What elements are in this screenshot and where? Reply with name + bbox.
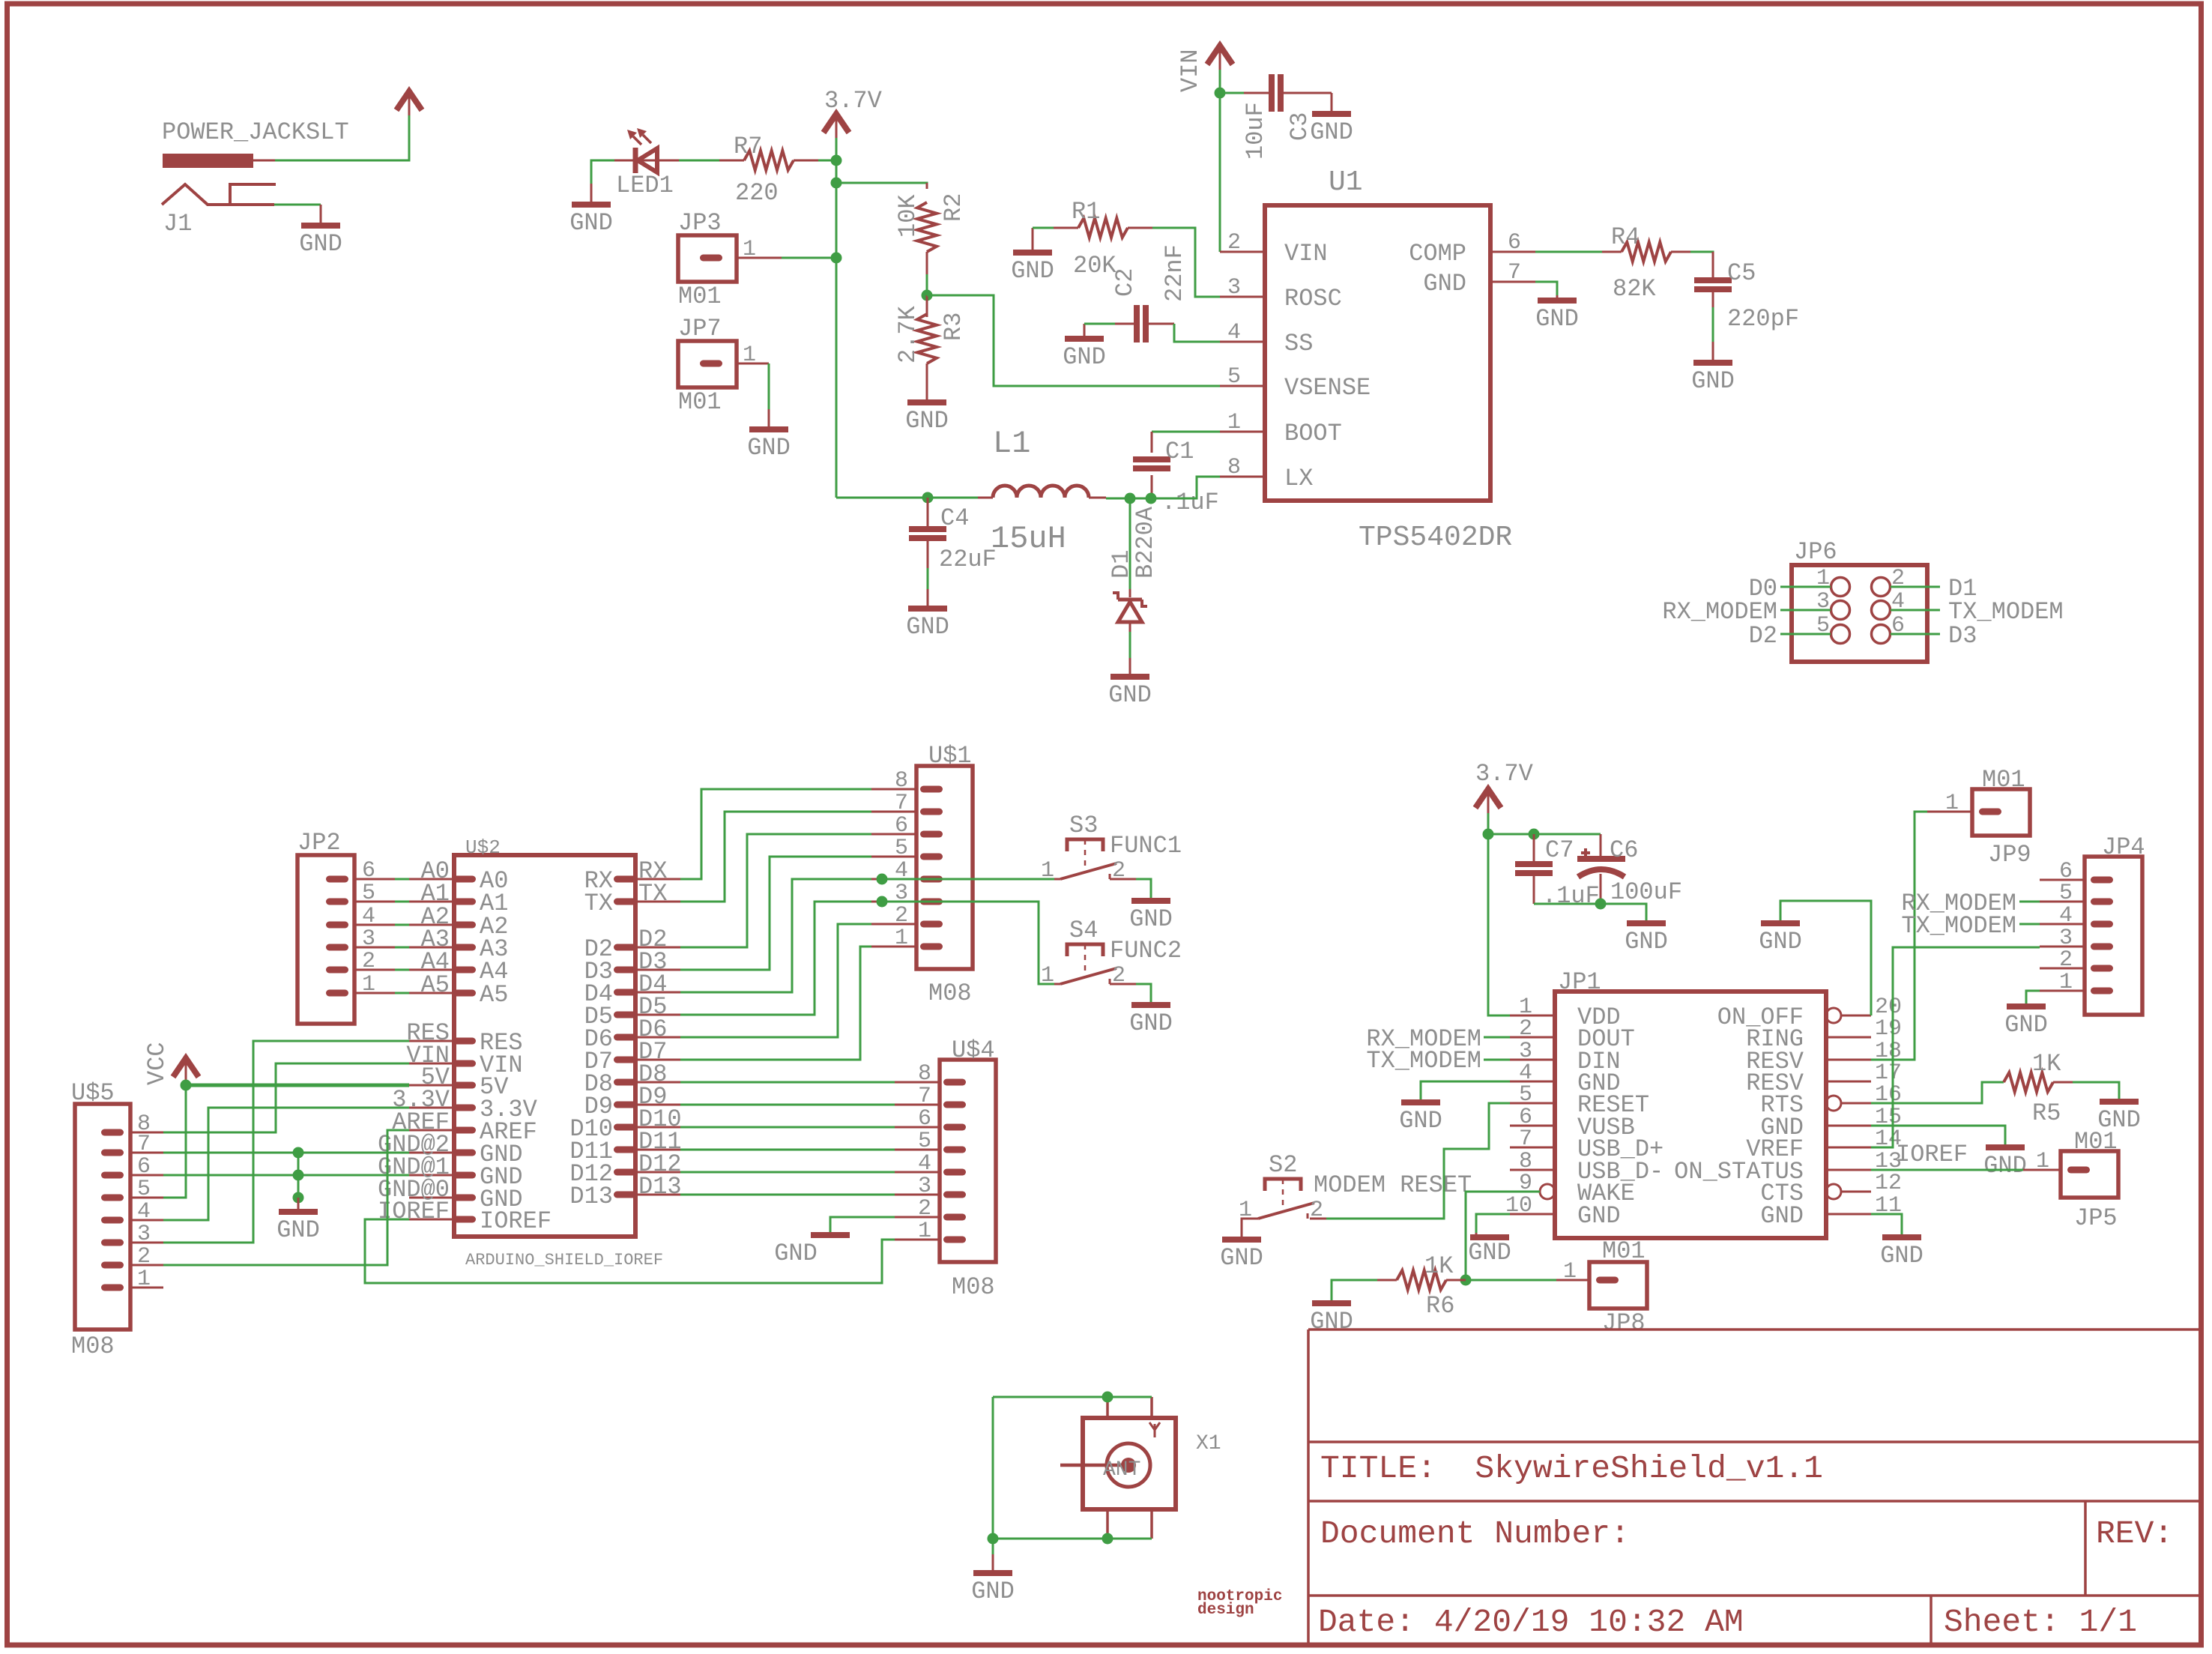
pin 2 VIN <box>1220 251 1265 253</box>
ground at JP1 pin15 <box>1983 1145 2027 1180</box>
svg-text:GND: GND <box>1129 1009 1173 1037</box>
junction C1 node <box>1146 493 1157 504</box>
pin 4 GND <box>1510 1081 1555 1083</box>
svg-text:GND: GND <box>906 613 949 641</box>
pin 20 ON_OFF <box>1826 1008 1841 1023</box>
wire D1 to ground <box>1129 632 1131 658</box>
junction X1 bottom left <box>988 1533 999 1545</box>
pin IOREF <box>453 1216 476 1223</box>
wire U$5 pin4 to 3.3V <box>163 1108 409 1220</box>
pin D3 <box>614 967 636 974</box>
svg-text:D13: D13 <box>569 1183 613 1210</box>
svg-text:4: 4 <box>2059 903 2073 929</box>
wire U$2 to U$1 <box>680 902 871 1015</box>
switch S4 FUNC2 <box>1041 917 1182 989</box>
svg-text:GND: GND <box>1983 1152 2027 1180</box>
wire D0 to JP6 pin1 <box>1780 586 1831 588</box>
svg-text:2: 2 <box>1519 1016 1532 1042</box>
svg-text:C1: C1 <box>1165 438 1194 465</box>
svg-text:LED1: LED1 <box>616 172 674 199</box>
connector JP3 M01 <box>678 209 782 310</box>
svg-text:GND: GND <box>1310 1308 1353 1335</box>
svg-text:1: 1 <box>918 1219 931 1244</box>
svg-text:R6: R6 <box>1426 1292 1454 1320</box>
svg-text:10uF: 10uF <box>1242 102 1269 160</box>
pin 5 RESET <box>1510 1102 1555 1105</box>
wire U$4 pin2 to ground <box>830 1217 895 1233</box>
svg-text:M08: M08 <box>928 980 972 1007</box>
connector J1 POWER_JACKSLT power jack <box>162 118 349 238</box>
ground below U1 pin 7 <box>1535 295 1579 333</box>
wire U$2 to U$1 <box>680 789 871 879</box>
svg-text:FUNC2: FUNC2 <box>1110 937 1182 965</box>
pin 17 RESV <box>1826 1081 1871 1083</box>
svg-text:7: 7 <box>1508 260 1521 286</box>
connector JP8 M01 <box>1556 1237 1647 1337</box>
pin 13 ON_STATUS <box>1826 1169 1871 1171</box>
svg-text:GND: GND <box>905 407 949 435</box>
capacitor C1 .1uF <box>1133 432 1219 516</box>
pin D5 <box>614 1012 636 1018</box>
svg-text:2: 2 <box>895 903 908 929</box>
logo nootropic design <box>1197 1588 1282 1619</box>
svg-text:GND: GND <box>1108 681 1152 709</box>
ground below S3 <box>1129 899 1173 933</box>
svg-text:C2: C2 <box>1111 268 1139 297</box>
svg-text:D13: D13 <box>638 1173 682 1201</box>
svg-text:Date: 4/20/19 10:32 AM: Date: 4/20/19 10:32 AM <box>1318 1604 1744 1641</box>
wire JP7 pin1 to ground <box>768 363 770 409</box>
wire LED1 to R7 <box>679 160 742 162</box>
resistor R2 10K <box>894 183 967 274</box>
ground left of R6 <box>1310 1301 1353 1335</box>
svg-text:2: 2 <box>2059 947 2073 973</box>
svg-text:GND: GND <box>1063 343 1106 371</box>
inductor L1 15uH <box>978 426 1106 557</box>
svg-text:6: 6 <box>895 813 908 839</box>
wire ground column <box>297 1153 300 1198</box>
wire JP1 pin10 to ground <box>1476 1214 1510 1233</box>
svg-text:JP8: JP8 <box>1602 1309 1646 1337</box>
svg-text:U$5: U$5 <box>71 1079 115 1107</box>
svg-text:ARDUINO_SHIELD_IOREF: ARDUINO_SHIELD_IOREF <box>465 1251 663 1270</box>
connector JP4 M06 header <box>2040 833 2145 1015</box>
svg-text:4: 4 <box>918 1151 931 1177</box>
pin 6 VUSB <box>1510 1125 1555 1127</box>
ground right of R5 <box>2097 1099 2141 1134</box>
capacitor C4 22uF <box>909 498 997 573</box>
switch S2 MODEM RESET <box>1239 1151 1472 1223</box>
svg-text:M01: M01 <box>678 283 722 310</box>
wire 3.7V down to JP1 VDD <box>1488 813 1510 1015</box>
wire R6 node to JP8 <box>1466 1279 1556 1282</box>
ground below LED1 <box>569 184 613 237</box>
junction U$1 pin3 / S4 <box>877 896 888 908</box>
wire JP1 pin11 to ground <box>1871 1214 1902 1235</box>
resistor R6 1K <box>1377 1252 1466 1320</box>
svg-text:IOREF: IOREF <box>480 1207 552 1235</box>
wire TX_MODEM to JP4 pin4 <box>2019 923 2040 926</box>
wire R1 to U1 pin 3 ROSC <box>1152 228 1220 297</box>
junction C4 node <box>922 492 934 504</box>
pin 8 LX <box>1220 476 1265 478</box>
svg-text:VIN: VIN <box>1284 240 1328 268</box>
pin 2 DOUT <box>1510 1036 1555 1039</box>
svg-text:3.7V: 3.7V <box>1475 760 1534 788</box>
ground below J1 <box>299 205 342 258</box>
svg-text:1: 1 <box>1041 963 1054 989</box>
pin RES <box>453 1038 476 1045</box>
pin 7 USB_D+ <box>1510 1147 1555 1149</box>
wire X1 bottom net <box>993 1538 1152 1540</box>
pin 1 VDD <box>1510 1015 1555 1017</box>
svg-text:5: 5 <box>137 1177 151 1202</box>
pin D6 <box>614 1034 636 1041</box>
svg-text:GND: GND <box>1011 257 1054 285</box>
wire U$5 pin7 to GND@2 <box>163 1152 409 1154</box>
connector U$4 M08 <box>895 1036 996 1301</box>
wire S4 pin2 to ground <box>1110 983 1136 986</box>
svg-text:D3: D3 <box>1948 622 1977 650</box>
antenna X1 <box>1060 1397 1221 1539</box>
wire VREF / IOREF to JP4 pin3 <box>1871 947 2040 1147</box>
svg-text:GND: GND <box>1220 1244 1263 1272</box>
svg-text:3: 3 <box>1227 275 1241 301</box>
svg-text:GND: GND <box>1625 928 1668 956</box>
ground at JP1 pin11 <box>1880 1235 1924 1270</box>
connector U$1 M08 <box>871 742 973 1007</box>
wire U$2 to U$1 <box>680 834 871 947</box>
ground below D1 <box>1108 658 1152 709</box>
svg-text:8: 8 <box>895 768 908 794</box>
wire R2 to R3 <box>926 274 928 295</box>
svg-text:12: 12 <box>1875 1171 1902 1196</box>
svg-text:1K: 1K <box>2032 1050 2061 1078</box>
svg-text:5: 5 <box>1227 364 1241 390</box>
pin 9 WAKE <box>1510 1191 1540 1193</box>
svg-text:GND: GND <box>774 1240 818 1267</box>
junction VCC / 5V <box>181 1080 192 1091</box>
pin 16 RTS <box>1826 1096 1841 1111</box>
svg-text:1K: 1K <box>1424 1252 1454 1280</box>
ground below S4 <box>1129 1003 1173 1037</box>
svg-text:JP2: JP2 <box>297 829 341 857</box>
ground below C4 <box>906 589 949 641</box>
svg-text:JP7: JP7 <box>678 315 722 342</box>
pin D10 <box>614 1124 636 1131</box>
svg-text:GND: GND <box>1880 1242 1924 1270</box>
svg-text:GND: GND <box>1577 1202 1621 1230</box>
svg-text:3.7V: 3.7V <box>824 87 883 115</box>
svg-text:GND: GND <box>1468 1239 1511 1267</box>
svg-text:4: 4 <box>137 1199 151 1225</box>
wire U$5 pin5 to VCC <box>163 1085 186 1198</box>
pin AREF <box>453 1127 476 1134</box>
wire JP2 to U$2 A3 <box>354 947 395 949</box>
IC JP1 modem header <box>1505 968 1902 1238</box>
svg-text:JP6: JP6 <box>1794 538 1837 566</box>
pin 4 SS <box>1220 341 1265 343</box>
junction R2/R3 VSENSE node <box>922 290 933 301</box>
wire VIN arrow to junction <box>1219 70 1221 93</box>
pin D13 <box>614 1192 636 1198</box>
svg-text:POWER_JACKSLT: POWER_JACKSLT <box>162 118 349 146</box>
junction 3.7V at R7 <box>831 155 842 166</box>
svg-text:1: 1 <box>137 1267 151 1292</box>
svg-text:R4: R4 <box>1611 223 1640 251</box>
ground at ON_OFF <box>1759 921 1802 956</box>
svg-text:10K: 10K <box>894 194 922 238</box>
wire J1 sleeve to ground <box>274 204 321 206</box>
wire IOREF net U$2 to U$4 pin1 <box>365 1219 895 1283</box>
svg-text:6: 6 <box>1508 230 1521 256</box>
svg-text:15uH: 15uH <box>991 521 1066 557</box>
svg-text:D2: D2 <box>1749 622 1777 650</box>
wire JP2 to U$2 A0 <box>354 878 395 881</box>
capacitor C6 100uF polarized <box>1577 834 1682 906</box>
svg-text:S3: S3 <box>1069 812 1098 839</box>
svg-text:R3: R3 <box>940 313 967 341</box>
wire L1 to LX node <box>1106 498 1197 500</box>
svg-text:220: 220 <box>735 179 779 207</box>
svg-text:S2: S2 <box>1269 1151 1297 1179</box>
svg-text:BOOT: BOOT <box>1284 420 1342 447</box>
junction 3.7V / C7 branch <box>1483 829 1494 840</box>
svg-text:7: 7 <box>1519 1126 1532 1152</box>
svg-text:C6: C6 <box>1610 836 1638 864</box>
svg-text:C7: C7 <box>1545 836 1574 864</box>
pin D2 <box>614 944 636 951</box>
wire U1 pin7 GND to ground <box>1535 282 1557 295</box>
junction C7 <box>1529 829 1540 840</box>
junction 3.7V at JP3 <box>831 253 842 264</box>
svg-text:1: 1 <box>743 342 756 368</box>
svg-text:JP4: JP4 <box>2102 833 2145 861</box>
wire U$2 D-pin to U$4 <box>680 1126 895 1129</box>
svg-text:M08: M08 <box>71 1332 115 1360</box>
wire R5 to ground <box>2073 1082 2119 1099</box>
wire ON_STATUS to JP5 <box>1871 1169 2023 1171</box>
wire D2 to JP6 pin5 <box>1780 633 1831 636</box>
pin GND@2 <box>453 1150 476 1156</box>
svg-text:ROSC: ROSC <box>1284 285 1342 313</box>
svg-text:3: 3 <box>918 1174 931 1199</box>
supply arrow VIN <box>1207 46 1233 70</box>
svg-text:M01: M01 <box>678 388 722 416</box>
pin 5V <box>453 1082 476 1089</box>
wire U$2 D-pin to U$4 <box>680 1194 895 1196</box>
svg-text:R7: R7 <box>734 133 762 160</box>
wire X1 to ground <box>992 1539 994 1554</box>
wire junction to S3 pin1 <box>882 878 1054 881</box>
ground below C6 <box>1625 921 1668 956</box>
junction R6 / JP8 <box>1460 1275 1472 1286</box>
svg-text:ANT: ANT <box>1103 1458 1140 1482</box>
svg-text:GND: GND <box>1691 367 1735 395</box>
wire U1 BOOT to C1 <box>1152 431 1220 433</box>
svg-text:1: 1 <box>2059 970 2073 995</box>
resistor R5 1K <box>2004 1050 2073 1127</box>
svg-text:design: design <box>1197 1602 1254 1619</box>
svg-text:7: 7 <box>137 1132 151 1157</box>
wire U$5 pin8 to VIN <box>163 1063 409 1132</box>
svg-text:M01: M01 <box>1602 1237 1646 1265</box>
svg-text:100uF: 100uF <box>1610 878 1682 906</box>
pin 8 USB_D- <box>1510 1169 1555 1171</box>
pin 18 RESV <box>1826 1059 1871 1061</box>
svg-text:1: 1 <box>2036 1149 2049 1174</box>
connector JP5 M01 <box>2023 1128 2118 1232</box>
svg-text:VSENSE: VSENSE <box>1284 374 1371 402</box>
wire 3.7V to C6/C7 <box>1488 833 1601 836</box>
svg-text:A5: A5 <box>421 971 450 999</box>
svg-text:6: 6 <box>137 1154 151 1180</box>
wire JP1 pin4 to ground <box>1421 1081 1510 1100</box>
pin A3 <box>453 944 476 951</box>
connector JP9 M01 <box>1927 766 2031 869</box>
svg-text:82K: 82K <box>1613 275 1656 303</box>
svg-text:L1: L1 <box>993 426 1030 462</box>
supply arrow 3.7V (modem) <box>1475 789 1501 813</box>
wire JP4 pin1 to ground <box>2026 991 2040 1004</box>
wire JP1 RESET to S2 <box>1326 1103 1510 1219</box>
svg-text:C5: C5 <box>1727 259 1756 287</box>
svg-text:8: 8 <box>1227 455 1241 480</box>
wire U$2 D-pin to U$4 <box>680 1104 895 1106</box>
svg-text:FUNC1: FUNC1 <box>1110 832 1182 860</box>
junction GND@2 <box>293 1147 304 1159</box>
ground below S2 <box>1220 1237 1263 1272</box>
pin GND@0 <box>453 1195 476 1201</box>
ground below C5 <box>1691 342 1735 395</box>
pin GND@1 <box>453 1172 476 1179</box>
ground below JP7 <box>747 409 791 462</box>
wire RX_MODEM to JP4 pin5 <box>2019 901 2040 903</box>
junction GND@0 <box>293 1192 304 1204</box>
svg-text:7: 7 <box>895 791 908 816</box>
supply arrow VIN (unlabeled) <box>396 91 422 115</box>
wire JP3 pin1 to 3.7V rail <box>782 257 836 259</box>
svg-text:U$1: U$1 <box>928 742 972 770</box>
svg-text:GND: GND <box>1310 118 1353 146</box>
svg-text:5: 5 <box>1519 1082 1532 1108</box>
pin 3 DIN <box>1510 1059 1555 1061</box>
svg-text:TX_MODEM: TX_MODEM <box>1366 1047 1481 1075</box>
pin 19 RING <box>1826 1036 1871 1039</box>
svg-text:JP9: JP9 <box>1988 841 2031 869</box>
svg-text:R5: R5 <box>2032 1099 2061 1127</box>
wire U$2 D-pin to U$4 <box>680 1081 895 1084</box>
svg-text:TX_MODEM: TX_MODEM <box>1901 912 2016 940</box>
wire VIN junction to C3 <box>1220 92 1244 94</box>
svg-text:C4: C4 <box>940 504 969 532</box>
wire U$2 to U$1 <box>680 879 871 992</box>
ground at JP1 pin4 <box>1399 1100 1442 1135</box>
ground below GND column <box>276 1198 320 1244</box>
svg-text:22uF: 22uF <box>939 546 997 573</box>
pin D9 <box>614 1102 636 1108</box>
resistor R7 220 <box>719 133 818 207</box>
pin D4 <box>614 989 636 996</box>
svg-text:1: 1 <box>1563 1259 1577 1285</box>
wire GND to C2 <box>1084 323 1115 325</box>
svg-text:2: 2 <box>1310 1198 1323 1223</box>
pin 5 VSENSE <box>1220 385 1265 387</box>
wire R6 to ground <box>1332 1280 1377 1301</box>
wire RX_MODEM to DOUT <box>1484 1036 1510 1039</box>
svg-text:6: 6 <box>918 1106 931 1132</box>
connector JP2 M06 header <box>297 829 375 1024</box>
wire VSENSE node to U1 pin 5 <box>927 295 1220 386</box>
pin A0 <box>453 876 476 883</box>
wire R4 to C5 <box>1690 252 1713 274</box>
svg-text:MODEM RESET: MODEM RESET <box>1314 1171 1472 1199</box>
svg-text:2: 2 <box>137 1244 151 1270</box>
wire JP1 WAKE to R6 node <box>1466 1192 1540 1280</box>
svg-text:1: 1 <box>895 926 908 951</box>
IC U$2 ARDUINO_SHIELD_IOREF <box>378 836 682 1270</box>
svg-text:TPS5402DR: TPS5402DR <box>1359 522 1512 554</box>
svg-text:GND: GND <box>1399 1107 1442 1135</box>
capacitor C2 22nF <box>1111 244 1188 342</box>
wire RTS to R5 <box>1871 1082 2004 1103</box>
svg-text:GND: GND <box>1535 305 1579 333</box>
svg-text:J1: J1 <box>163 210 192 238</box>
svg-text:1: 1 <box>1227 410 1241 435</box>
svg-text:3: 3 <box>137 1222 151 1247</box>
pin 11 GND <box>1826 1213 1871 1216</box>
svg-text:5: 5 <box>918 1129 931 1154</box>
wire LX node to D1 <box>1129 498 1131 589</box>
svg-text:VCC: VCC <box>143 1042 171 1085</box>
wire S3 pin2 to ground <box>1110 878 1136 881</box>
svg-text:GND: GND <box>971 1578 1015 1605</box>
resistor R1 20K <box>1054 198 1152 280</box>
wire JP2 to U$2 A5 <box>354 992 395 994</box>
svg-text:R1: R1 <box>1072 198 1100 226</box>
pin 1 BOOT <box>1220 431 1265 433</box>
svg-text:20K: 20K <box>1073 252 1116 280</box>
resistor R4 82K <box>1602 223 1690 303</box>
svg-text:GND: GND <box>569 209 613 237</box>
svg-text:1: 1 <box>743 237 756 262</box>
svg-text:GND: GND <box>2004 1011 2048 1039</box>
pin A2 <box>453 922 476 929</box>
pin VIN <box>453 1060 476 1067</box>
wire junction to S4 pin1 <box>882 902 1054 984</box>
svg-text:GND: GND <box>1759 928 1802 956</box>
wire U$2 D-pin to U$4 <box>680 1171 895 1174</box>
ground below R3 <box>905 381 949 435</box>
wire U$2 to U$1 <box>680 924 871 1037</box>
svg-text:2.7K: 2.7K <box>894 305 922 363</box>
svg-text:7: 7 <box>918 1084 931 1109</box>
svg-text:U1: U1 <box>1329 166 1363 199</box>
pin 3.3V <box>453 1105 476 1111</box>
svg-text:M08: M08 <box>952 1273 995 1301</box>
pin A4 <box>453 967 476 974</box>
svg-text:X1: X1 <box>1196 1432 1221 1455</box>
svg-text:SS: SS <box>1284 330 1313 357</box>
wire U1 COMP to R4 <box>1535 251 1602 253</box>
svg-text:U$2: U$2 <box>465 836 501 859</box>
junction VIN / C3 <box>1215 88 1226 99</box>
pin D12 <box>614 1169 636 1176</box>
wire C7/C6 bottom to ground <box>1534 904 1646 921</box>
svg-text:2: 2 <box>918 1196 931 1222</box>
wire U$2 D-pin to U$4 <box>680 1149 895 1151</box>
pin A5 <box>453 990 476 997</box>
